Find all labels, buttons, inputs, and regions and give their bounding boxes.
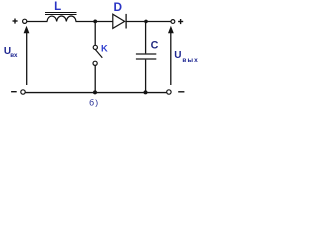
svg-text:C: C [151, 40, 159, 52]
svg-text:б): б) [89, 98, 99, 108]
svg-text:K: K [101, 44, 108, 54]
svg-text:D: D [114, 0, 123, 14]
svg-text:вх: вх [10, 52, 18, 59]
svg-text:U: U [174, 50, 181, 61]
svg-text:вых: вых [182, 57, 198, 64]
svg-text:L: L [54, 1, 61, 13]
